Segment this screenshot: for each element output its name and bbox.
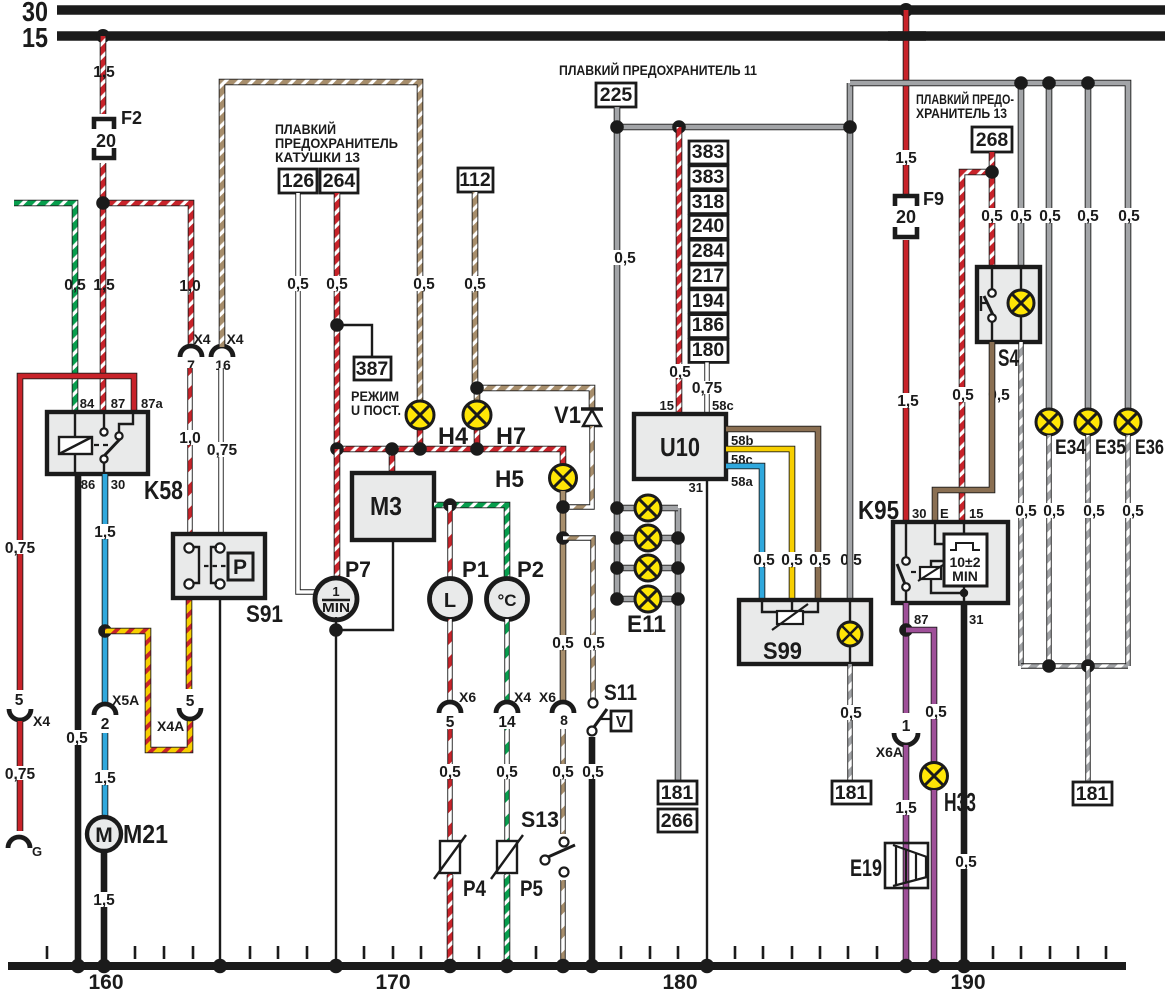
svg-text:КАТУШКИ 13: КАТУШКИ 13 (275, 150, 360, 165)
label 1,5 blue wire upper (90, 524, 120, 541)
label 1,0 sparse wire (175, 430, 205, 447)
svg-text:58a: 58a (731, 474, 753, 489)
svg-text:0,5: 0,5 (1043, 503, 1065, 520)
label 0,5 S11 black wire (578, 764, 608, 781)
svg-text:0,5: 0,5 (781, 552, 803, 569)
svg-text:126: 126 (282, 170, 315, 192)
svg-text:20: 20 (96, 131, 116, 151)
track number labels (88, 971, 985, 990)
wire code box 225 (596, 83, 636, 107)
wire red/white stub lamp H4 (417, 430, 424, 449)
svg-text:0,5: 0,5 (496, 764, 518, 781)
svg-text:P7: P7 (345, 557, 371, 582)
wire green/white to K58 pin 84 (14, 203, 75, 412)
svg-text:ХРАНИТЕЛЬ 13: ХРАНИТЕЛЬ 13 (916, 106, 1007, 121)
label 0,5 tan 112 wire (460, 276, 490, 293)
svg-text:112: 112 (459, 169, 491, 191)
switch unit S99 (739, 600, 871, 665)
svg-text:0,5: 0,5 (809, 552, 831, 569)
connector X4 pin 5 (cup) (9, 692, 50, 729)
svg-text:1,0: 1,0 (179, 430, 201, 447)
svg-text:0,5: 0,5 (952, 387, 974, 404)
svg-text:86: 86 (81, 477, 95, 492)
bus 15 overdraw at crossing (888, 31, 926, 41)
svg-text:H4: H4 (438, 423, 469, 450)
wire purple from X6A through E19 to bottom bus (903, 745, 910, 966)
track tick marks (47, 946, 1106, 959)
svg-text:87a: 87a (141, 396, 163, 411)
svg-text:H33: H33 (944, 787, 976, 817)
svg-text:20: 20 (896, 207, 916, 227)
svg-text:X4: X4 (514, 689, 531, 705)
node purple branch (899, 623, 913, 637)
connector X6 pin 8 (arch) (539, 689, 574, 728)
svg-text:383: 383 (692, 141, 725, 163)
label 0,5 blue 58a (749, 552, 779, 569)
svg-text:K58: K58 (144, 475, 183, 505)
svg-text:U10: U10 (660, 432, 700, 462)
svg-text:M3: M3 (370, 491, 402, 521)
label 1,5 blue wire lower (90, 770, 120, 787)
svg-text:0,5: 0,5 (925, 704, 947, 721)
svg-text:1,5: 1,5 (93, 277, 115, 294)
wire purple branch to lamp H33 (906, 630, 934, 763)
wire red/white from F2 down to node and K58 pin 87 (100, 163, 107, 412)
wire sparse tan to switch S11 (563, 538, 593, 698)
wire grey lamp stubs E11 (617, 508, 678, 599)
wire red/white lamp rail H4 H7 H5 (337, 449, 563, 465)
wire red solid from K58 pin 87a to connector X4 pin 5 (20, 376, 134, 690)
sensor P4 (434, 835, 487, 901)
wire tan from H5 down to X6-8 (560, 491, 567, 703)
svg-text:0,5: 0,5 (1077, 208, 1099, 225)
wire green/white from M3 to gauge P2 (434, 505, 507, 582)
svg-text:E35: E35 (1095, 436, 1126, 459)
label 0,5 red/white 264 wire (322, 276, 352, 293)
label 0,75 red wire left (4, 540, 36, 557)
node tan V1 loop (556, 500, 570, 514)
wire brown from S4 to K95 pin E (935, 342, 992, 523)
svg-text:1,5: 1,5 (94, 770, 116, 787)
wire black from M21 to bottom bus (101, 851, 108, 966)
wire white from box 126 to P7 (298, 193, 317, 592)
svg-text:U ПОСТ.: U ПОСТ. (351, 403, 401, 418)
svg-text:S11: S11 (604, 680, 637, 705)
label fuse coil text (russian) (275, 122, 398, 165)
svg-text:318: 318 (692, 191, 725, 213)
wire blue from K58 pin 30 to connector X5A (102, 474, 109, 703)
node rail at H4 (413, 442, 427, 456)
svg-text:0,5: 0,5 (413, 276, 435, 293)
svg-text:X4: X4 (33, 713, 50, 729)
label 0,5 H33 wire (921, 704, 951, 721)
wire code box 181 right (1073, 782, 1112, 805)
label 0,5 brown 58b (805, 552, 835, 569)
svg-text:5: 5 (446, 714, 455, 731)
label 1,5 above F9 (891, 150, 921, 167)
wire tan from box 112 to V1 branch (475, 192, 592, 409)
svg-text:194: 194 (692, 290, 725, 312)
node green at P1 branch (443, 498, 457, 512)
svg-text:0,5: 0,5 (1083, 503, 1105, 520)
svg-text:181: 181 (1076, 783, 1109, 805)
svg-text:X6A: X6A (876, 744, 903, 760)
svg-text:8: 8 (560, 712, 568, 728)
lamp H4 (406, 401, 469, 450)
svg-text:383: 383 (692, 166, 725, 188)
label 0,5 U10-15 wire (665, 364, 695, 381)
svg-text:1,5: 1,5 (94, 524, 116, 541)
label 0,5 S13 wire (548, 764, 578, 781)
label 0,5 white 126 wire (283, 276, 313, 293)
svg-text:0,5: 0,5 (1010, 208, 1032, 225)
mode box 387 (351, 357, 401, 418)
node grey at 850,127 (843, 120, 857, 134)
wire black from K58 pin 86 to bottom bus (75, 474, 82, 966)
svg-text:5: 5 (186, 693, 195, 710)
connector X4 pin 14 (arch) (496, 689, 531, 731)
lamps E11 x4 (627, 495, 666, 638)
wire white from X4-16 to S91 (218, 368, 223, 548)
svg-text:0,5: 0,5 (1118, 208, 1140, 225)
svg-text:0,5: 0,5 (753, 552, 775, 569)
svg-text:387: 387 (356, 358, 389, 380)
svg-text:X6: X6 (459, 689, 476, 705)
svg-text:ПЛАВКИЙ ПРЕДО-: ПЛАВКИЙ ПРЕДО- (916, 92, 1014, 107)
label 0,5 K95-31 wire (951, 854, 981, 871)
svg-text:0,5: 0,5 (981, 208, 1003, 225)
wire grey from top net down to S99 lamp (847, 83, 854, 600)
label 0,5 yellow 58c (777, 552, 807, 569)
wire red/white branch from node to connector X4 pin 7 (103, 203, 191, 348)
node on bus 15 at wire to F2 (96, 29, 110, 43)
node rail at M3 stub (385, 442, 399, 456)
wire green/white below P5 to bottom bus (504, 875, 511, 966)
svg-text:31: 31 (969, 612, 983, 627)
wire blue U10 58a to S99 (726, 466, 762, 600)
svg-text:F2: F2 (121, 108, 142, 128)
wire red/white stub to M3 (389, 449, 396, 474)
wire red from bus 30 to fuse F9 (903, 10, 910, 194)
svg-text:ПЛАВКИЙ: ПЛАВКИЙ (275, 122, 336, 137)
timer relay K95 (858, 495, 1008, 627)
svg-text:E: E (940, 506, 949, 521)
svg-text:1,0: 1,0 (179, 278, 201, 295)
connector X4 pin 16 (arch) (211, 331, 244, 373)
wire code box 112 (458, 168, 493, 192)
svg-text:0,75: 0,75 (692, 380, 723, 397)
svg-text:0,5: 0,5 (66, 730, 88, 747)
label 0,5 P4 wire (435, 764, 465, 781)
node tan S11 branch (556, 531, 570, 545)
svg-text:0,75: 0,75 (207, 442, 238, 459)
wire blue from X5A to motor M21 (102, 733, 109, 818)
svg-text:E36: E36 (1135, 436, 1164, 459)
label 0,5 P5 wire (492, 764, 522, 781)
svg-text:X4A: X4A (157, 718, 184, 734)
svg-text:0,5: 0,5 (552, 764, 574, 781)
svg-text:0,5: 0,5 (552, 635, 574, 652)
svg-text:181: 181 (835, 782, 868, 804)
wire red/white from 268 to S4 (989, 152, 996, 267)
svg-text:°C: °C (497, 591, 516, 610)
svg-text:240: 240 (692, 215, 725, 237)
bus junction nodes (71, 959, 971, 973)
svg-text:S13: S13 (521, 807, 559, 832)
svg-text:H5: H5 (495, 466, 524, 493)
wire code box 264 (320, 169, 358, 193)
svg-text:E34: E34 (1055, 436, 1086, 459)
svg-text:0,75: 0,75 (5, 540, 36, 557)
control unit S91 (173, 534, 283, 628)
nodes E11 left rail (610, 501, 624, 606)
svg-text:264: 264 (323, 170, 356, 192)
wire red/white from grey net to U10 pin 15 (676, 127, 683, 414)
svg-text:1,5: 1,5 (897, 393, 919, 410)
svg-text:0,5: 0,5 (287, 276, 309, 293)
wire grey down to lamp bank E11 left rail (614, 127, 621, 600)
svg-text:E19: E19 (850, 855, 882, 882)
node on blue wire for X4A branch (98, 624, 112, 638)
svg-text:30: 30 (111, 477, 125, 492)
svg-text:0,5: 0,5 (1015, 503, 1037, 520)
wire grey top net to S4/E34/E35/E36 (850, 83, 1128, 409)
wire grey from box 225 to junction and across (617, 107, 850, 127)
wire red/white stub lamp H7 (474, 430, 481, 449)
wire sparse red/white P1 to connector X6-5 (447, 619, 452, 702)
wire red/white below P4 to bottom bus (447, 875, 454, 966)
label 1,5 M21 black wire (89, 892, 119, 909)
diode V1 (554, 402, 603, 429)
svg-text:M: M (95, 824, 113, 847)
wire sparse red/white from node to gauge P1 (447, 505, 452, 580)
label 1,5 below F9 (893, 393, 923, 410)
wire thin black from S91 to bottom bus (219, 598, 221, 966)
wire code boxes 181/266 (658, 781, 697, 832)
svg-text:0,5: 0,5 (1122, 503, 1144, 520)
ecu U10 (634, 398, 753, 495)
relay K58 (47, 396, 183, 505)
svg-text:MIN: MIN (952, 568, 978, 584)
node grey at U10-15 tap (672, 120, 686, 134)
svg-text:P4: P4 (463, 876, 487, 901)
fuse F2 20A (94, 108, 142, 158)
lamp bank E11 rails (675, 508, 682, 782)
svg-text:E11: E11 (627, 611, 666, 638)
wire yellow U10 58c to S99 (726, 449, 792, 600)
svg-text:X5A: X5A (112, 692, 139, 708)
wire sparse grey below S99 to box 181 (847, 664, 852, 781)
svg-text:X4: X4 (226, 331, 243, 347)
svg-text:0,5: 0,5 (1039, 208, 1061, 225)
svg-text:1,5: 1,5 (895, 150, 917, 167)
wire sparse grey from return rail to box 181 (1085, 666, 1090, 782)
connector X5A pin 2 (arch) (94, 692, 139, 733)
svg-text:L: L (444, 590, 456, 612)
lamps E34 E35 E36 (1036, 409, 1086, 459)
wire red/white branch to K95 pin 15 (962, 172, 992, 523)
svg-text:14: 14 (498, 714, 516, 731)
svg-text:S91: S91 (246, 601, 283, 628)
wire thin black U10 pin 31 to bottom bus (706, 479, 708, 966)
svg-text:0,5: 0,5 (955, 854, 977, 871)
svg-text:170: 170 (375, 971, 410, 990)
svg-text:87: 87 (111, 396, 125, 411)
svg-text:G: G (32, 844, 42, 859)
svg-text:S4: S4 (998, 345, 1019, 372)
wire sparse green P2 to connector X4-14 (504, 619, 509, 702)
svg-text:0,5: 0,5 (64, 277, 86, 294)
svg-text:0,5: 0,5 (669, 364, 691, 381)
svg-text:5: 5 (15, 692, 24, 709)
label 0,5 below S99 (836, 705, 866, 722)
svg-text:31: 31 (689, 480, 703, 495)
svg-text:58c: 58c (712, 398, 734, 413)
nodes grey top net (1014, 76, 1095, 90)
wire red/white from bus15 to fuse F2 (100, 36, 107, 114)
svg-text:186: 186 (692, 314, 725, 336)
label 1,5 purple wire (891, 800, 921, 817)
switch unit S4 (977, 267, 1040, 372)
wire sparse green X4-14 to sensor P5 (504, 729, 509, 875)
svg-text:P: P (233, 556, 247, 579)
svg-text:0,5: 0,5 (326, 276, 348, 293)
svg-text:M21: M21 (123, 819, 168, 849)
lamp H33 (921, 763, 980, 818)
label 0,75 lower red wire (4, 766, 36, 783)
label 0,75 white wire (205, 442, 239, 459)
wire white from box 180 to U10 pin 58c (704, 362, 709, 414)
svg-text:0,5: 0,5 (464, 276, 486, 293)
node red/white at 268 (985, 165, 999, 179)
lamp H7 (463, 401, 526, 450)
label 0,5 tan loop (409, 276, 439, 293)
wire thin black to mode box 387 (337, 325, 372, 357)
svg-text:K95: K95 (858, 495, 899, 525)
switch S11 with voltmeter (588, 680, 638, 736)
label 0,5 grey S99 (836, 552, 866, 569)
svg-text:1,5: 1,5 (93, 64, 115, 81)
svg-text:284: 284 (692, 240, 725, 262)
label 0,5 S11 wire (579, 635, 609, 652)
wire yellow/red from node to connector X4A (snake) (105, 631, 190, 750)
node rail at 264 wire (330, 442, 344, 456)
sensor P5 (491, 835, 543, 901)
fuse F9 20A (895, 189, 944, 237)
svg-text:MIN: MIN (322, 601, 350, 615)
switch S13 (521, 807, 576, 880)
svg-text:217: 217 (692, 265, 725, 287)
node grey below 225 (610, 120, 624, 134)
gauge P2 (coolant temp) (487, 557, 545, 620)
svg-text:P2: P2 (517, 557, 544, 582)
label 0,75 58c wire (692, 380, 723, 397)
bottom track bus (8, 962, 1126, 970)
node for 387 tap (330, 318, 344, 332)
wire sparse red/white X6-5 to sensor P4 (447, 729, 452, 875)
svg-text:0,5: 0,5 (582, 764, 604, 781)
label fuse 13 text (russian) (916, 92, 1014, 121)
wire thin black M3 to P7 node (336, 540, 393, 630)
svg-text:180: 180 (692, 339, 725, 361)
svg-text:ПЛАВКИЙ ПРЕДОХРАНИТЕЛЬ 11: ПЛАВКИЙ ПРЕДОХРАНИТЕЛЬ 11 (559, 63, 757, 78)
connector X6 pin 5 (arch) (439, 689, 476, 731)
nodes striped return rail (1042, 659, 1095, 673)
svg-text:S99: S99 (763, 638, 802, 665)
svg-text:15: 15 (660, 398, 674, 413)
wire brown U10 58b to S99 (726, 429, 818, 600)
motor M21 (87, 817, 168, 851)
svg-text:87: 87 (914, 612, 928, 627)
wire sparse red/white from X4-7 to S91 (187, 368, 192, 548)
svg-text:2: 2 (101, 716, 110, 733)
connector X4A pin 5 (cup) (157, 693, 201, 734)
node on bus 30 at wire to F9 (899, 3, 913, 17)
svg-text:190: 190 (950, 971, 985, 990)
wire sparse tan from V1 to H5 node (563, 426, 592, 507)
lamp H5 (495, 465, 577, 494)
gauge P7 (tachometer) (315, 557, 371, 620)
gauge P1 (fuel level) (430, 557, 490, 620)
svg-text:V: V (616, 714, 627, 731)
label 0,5 tan wire (548, 635, 578, 652)
svg-text:0,5: 0,5 (614, 250, 636, 267)
node P7/M3 (329, 623, 343, 637)
wire red/white from box 264 down to lamp rail (334, 193, 341, 450)
connector X6A pin 1 (cup) (876, 718, 918, 760)
bus 15 (ignition rail) (22, 22, 1165, 53)
svg-text:15: 15 (969, 506, 983, 521)
svg-text:0,5: 0,5 (583, 635, 605, 652)
node rail at H7 (470, 442, 484, 456)
connector X4 pin 7 (arch) (180, 331, 211, 373)
wire tan loop from connector X4-16 over to lamp H4 (222, 82, 420, 401)
nodes E11 right rail (671, 531, 685, 606)
heater element E19 (850, 843, 928, 888)
label 0,5 grey wire (610, 250, 640, 267)
wire code box 181 under S99 (832, 781, 871, 804)
label 0,5 268 wire (977, 208, 1007, 225)
svg-text:84: 84 (80, 396, 95, 411)
wire red from F9 to K95 pin 30 (903, 240, 910, 523)
wire yellow/red from S91 down to X4A pin 5 (186, 598, 193, 689)
svg-text:1,5: 1,5 (895, 800, 917, 817)
svg-text:0,5: 0,5 (840, 705, 862, 722)
node tan at H7 (470, 381, 484, 395)
label 0,5 S4 brown wire (984, 387, 1014, 404)
node red/white junction below F2 (96, 196, 110, 210)
wire purple from H33 to bottom bus (931, 790, 938, 966)
wire code box 126 (279, 169, 317, 193)
ground connector G (arch) (8, 837, 42, 859)
svg-text:181: 181 (661, 782, 694, 804)
svg-text:225: 225 (600, 84, 633, 106)
svg-text:P1: P1 (462, 557, 489, 582)
ecu M3 (352, 473, 434, 540)
bus 30 (top supply rail) (22, 0, 1165, 27)
svg-text:V1: V1 (554, 402, 581, 429)
svg-text:1,5: 1,5 (93, 892, 115, 909)
svg-text:268: 268 (976, 129, 1009, 151)
wire tan stub to lamp H7 top (474, 388, 481, 402)
label 0,5 black wire (62, 730, 92, 747)
svg-text:1: 1 (332, 584, 339, 599)
svg-text:F9: F9 (923, 189, 944, 209)
wire code box 268 (972, 127, 1012, 152)
svg-text:H7: H7 (496, 423, 526, 450)
wire sparse grey below S4 lamp (1018, 342, 1023, 666)
svg-text:1: 1 (902, 718, 911, 735)
